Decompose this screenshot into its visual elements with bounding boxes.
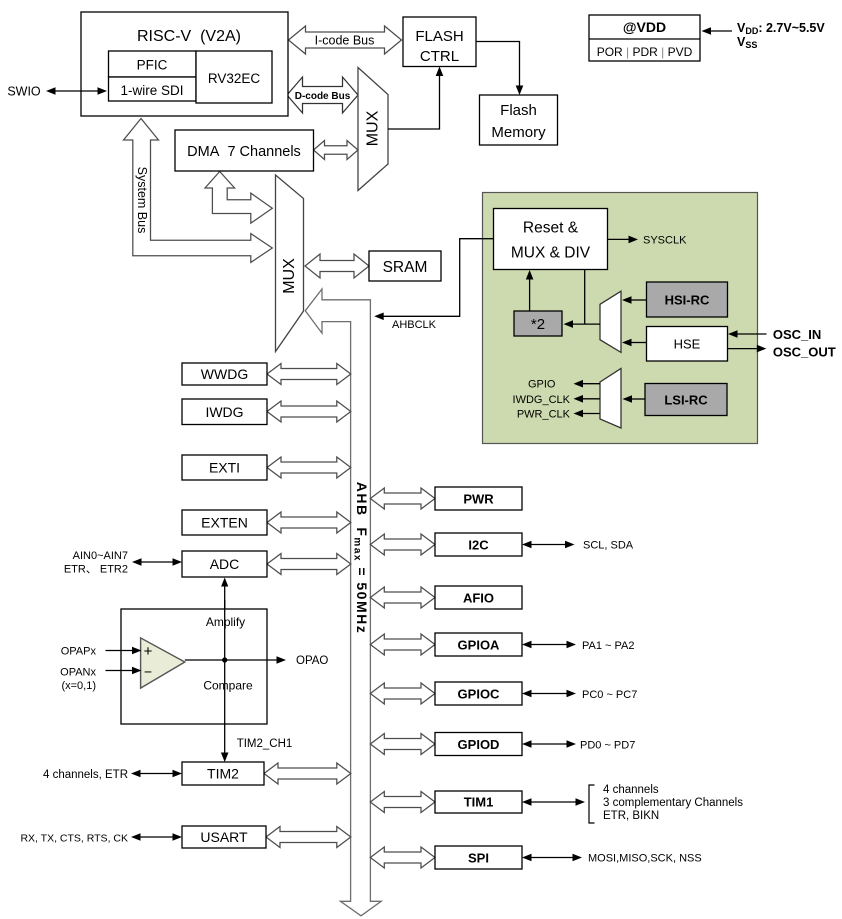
svg-text:AIN0~AIN7: AIN0~AIN7: [73, 550, 128, 562]
svg-text:MUX: MUX: [365, 110, 382, 146]
svg-text:LSI-RC: LSI-RC: [664, 393, 708, 408]
svg-text:SRAM: SRAM: [383, 259, 428, 276]
svg-text:Memory: Memory: [491, 124, 546, 141]
svg-text:OPANx: OPANx: [60, 667, 96, 679]
svg-text:Compare: Compare: [203, 679, 253, 693]
svg-text:DMA 7 Channels: DMA 7 Channels: [187, 144, 301, 160]
svg-text:RISC-V (V2A): RISC-V (V2A): [137, 28, 241, 45]
svg-text:PWR: PWR: [463, 492, 494, 507]
svg-text:SPI: SPI: [468, 851, 489, 866]
svg-text:AFIO: AFIO: [463, 591, 494, 606]
svg-text:FLASH: FLASH: [415, 28, 463, 45]
svg-text:OSC_IN: OSC_IN: [773, 327, 821, 342]
svg-text:MUX & DIV: MUX & DIV: [511, 245, 591, 262]
svg-text:PWR_CLK: PWR_CLK: [517, 409, 571, 421]
svg-text:3 complementary Channels: 3 complementary Channels: [603, 797, 743, 809]
svg-text:TIM2_CH1: TIM2_CH1: [237, 738, 293, 750]
svg-text:SYSCLK: SYSCLK: [643, 235, 687, 247]
svg-text:RV32EC: RV32EC: [208, 71, 261, 86]
svg-text:EXTI: EXTI: [209, 460, 240, 476]
svg-text:4 channels: 4 channels: [603, 784, 659, 796]
svg-text:−: −: [144, 664, 152, 680]
svg-text:Reset &: Reset &: [523, 220, 579, 237]
svg-text:1-wire SDI: 1-wire SDI: [120, 83, 183, 98]
svg-text:PC0 ~ PC7: PC0 ~ PC7: [582, 689, 637, 701]
svg-text:PA1 ~ PA2: PA1 ~ PA2: [582, 640, 635, 652]
svg-text:GPIOD: GPIOD: [458, 737, 500, 752]
svg-text:ETR, BIKN: ETR, BIKN: [603, 810, 659, 822]
svg-text:I2C: I2C: [468, 538, 489, 553]
svg-text:@VDD: @VDD: [623, 19, 666, 35]
svg-text:SCL, SDA: SCL, SDA: [583, 540, 634, 552]
svg-text:MOSI,MISO,SCK, NSS: MOSI,MISO,SCK, NSS: [588, 853, 702, 865]
svg-text:GPIO: GPIO: [528, 379, 556, 391]
svg-text:PFIC: PFIC: [137, 58, 168, 73]
svg-text:*2: *2: [531, 316, 545, 333]
svg-text:+: +: [144, 643, 153, 660]
svg-text:MUX: MUX: [281, 258, 298, 294]
svg-text:ADC: ADC: [210, 556, 240, 572]
svg-text:IWDG: IWDG: [205, 404, 243, 420]
svg-text:USART: USART: [200, 829, 248, 845]
svg-text:PD0 ~ PD7: PD0 ~ PD7: [580, 740, 635, 752]
svg-text:WWDG: WWDG: [201, 366, 248, 382]
svg-text:OPAPx: OPAPx: [61, 646, 97, 658]
svg-text:GPIOA: GPIOA: [458, 638, 501, 653]
svg-text:4 channels, ETR: 4 channels, ETR: [43, 769, 128, 781]
svg-text:Amplify: Amplify: [206, 615, 245, 629]
svg-text:CTRL: CTRL: [420, 48, 459, 65]
svg-text:D-code Bus: D-code Bus: [295, 91, 351, 102]
svg-text:OSC_OUT: OSC_OUT: [773, 345, 836, 360]
svg-text:IWDG_CLK: IWDG_CLK: [513, 394, 571, 406]
svg-text:TIM2: TIM2: [207, 766, 239, 782]
svg-text:System Bus: System Bus: [135, 167, 149, 234]
svg-text:EXTEN: EXTEN: [201, 515, 248, 531]
svg-text:HSE: HSE: [674, 337, 701, 352]
svg-text:GPIOC: GPIOC: [458, 687, 501, 702]
svg-text:VDD: 2.7V~5.5V: VDD: 2.7V~5.5V: [737, 21, 825, 36]
svg-text:RX, TX, CTS, RTS, CK: RX, TX, CTS, RTS, CK: [20, 833, 128, 845]
svg-text:I-code Bus: I-code Bus: [315, 34, 375, 48]
svg-text:OPAO: OPAO: [296, 655, 328, 667]
svg-text:TIM1: TIM1: [464, 795, 494, 810]
svg-text:ETR、 ETR2: ETR、 ETR2: [64, 564, 128, 576]
svg-text:HSI-RC: HSI-RC: [665, 293, 710, 308]
svg-text:(x=0,1): (x=0,1): [61, 680, 96, 692]
svg-text:POR | PDR | PVD: POR | PDR | PVD: [597, 45, 693, 59]
svg-text:VSS: VSS: [737, 35, 757, 50]
svg-text:SWIO: SWIO: [7, 85, 41, 99]
svg-text:AHBCLK: AHBCLK: [392, 319, 437, 331]
svg-text:Flash: Flash: [500, 102, 537, 119]
